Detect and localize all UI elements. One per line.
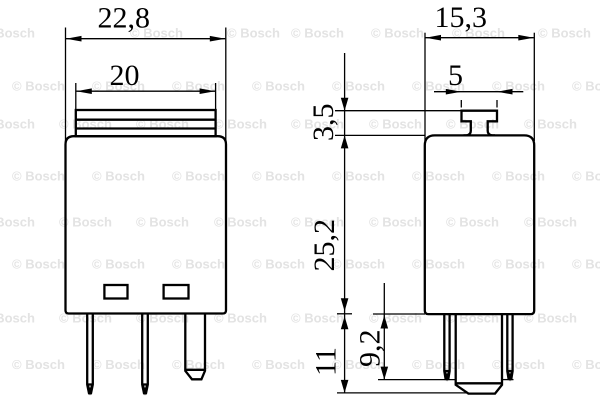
svg-text:© Bosch: © Bosch [214,117,267,132]
dim 9,2 dimension line [383,283,385,380]
dim 9,2 down arrow [381,367,389,380]
svg-text:© Bosch: © Bosch [12,357,65,372]
cap rib line 1 [76,119,216,121]
side pin right tip V [508,371,513,378]
dim 20 extension line right [215,83,217,110]
dim 15,3 dimension line [426,37,534,39]
svg-text:© Bosch: © Bosch [446,117,499,132]
ext line pin tips left segment [378,379,456,381]
tick extension at y=313.8 [337,313,352,315]
svg-text:© Bosch: © Bosch [0,26,35,41]
dim 22,8 arrow left [66,36,82,42]
dim 5 extension line right [496,100,498,108]
svg-text:© Bosch: © Bosch [59,215,112,230]
dim 22,8 extension line right [225,28,227,142]
svg-text:© Bosch: © Bosch [572,357,600,372]
pin 2 outline [142,314,148,394]
pin 1 tip V [88,385,93,392]
dim 15,3 extension line right [533,33,535,141]
svg-text:© Bosch: © Bosch [332,169,385,184]
svg-text:© Bosch: © Bosch [12,169,65,184]
dim 22,8 arrow right [210,36,226,42]
svg-text:© Bosch: © Bosch [291,311,344,326]
side pin left tip V [445,371,450,378]
pin 3 wide blade outline [185,314,205,380]
dim 3,5 arrow upper outside [341,98,349,111]
vertical dimension line for 3,5 / 25,2 / 11 [344,53,346,393]
svg-text:© Bosch: © Bosch [492,169,545,184]
svg-text:11: 11 [310,347,343,376]
dim 3,5 / 25,2 shared up arrow [341,135,349,148]
pin 2 crimp line [142,383,148,385]
svg-text:15,3: 15,3 [435,1,488,34]
terminal window right [164,285,189,299]
dim 5 arrow left outside [446,89,462,95]
side pin right crimp [507,370,512,372]
dim 11 bottom extension line [337,392,469,394]
svg-text:22,8: 22,8 [98,2,151,35]
svg-text:© Bosch: © Bosch [0,215,35,230]
svg-text:© Bosch: © Bosch [0,311,35,326]
center blade outline [456,314,502,394]
svg-text:© Bosch: © Bosch [369,215,422,230]
dim 5 extension line left [460,100,462,108]
svg-text:© Bosch: © Bosch [492,357,545,372]
dim 20 dimension line [76,90,215,92]
dim 25,2 down arrow [341,298,349,311]
side pin left crimp [444,370,449,372]
pin 2 tip V [143,385,148,392]
dim 22,8 dimension line [66,38,225,40]
ext line tab top going left [335,110,462,112]
ext line body top going left [335,134,425,136]
cap rib line 2 [76,127,216,129]
svg-text:© Bosch: © Bosch [252,257,305,272]
dim 20 arrow left [76,88,92,94]
dim 20 extension line left [75,83,77,110]
svg-text:5: 5 [448,59,463,92]
dim 9,2 up arrow [381,316,389,329]
svg-text:© Bosch: © Bosch [524,117,577,132]
svg-text:© Bosch: © Bosch [446,311,499,326]
svg-text:© Bosch: © Bosch [369,311,422,326]
svg-text:© Bosch: © Bosch [492,257,545,272]
svg-text:© Bosch: © Bosch [136,215,189,230]
dim 11 up arrow [341,316,349,329]
dim 5 arrow right outside [497,89,513,95]
svg-text:© Bosch: © Bosch [412,257,465,272]
svg-text:© Bosch: © Bosch [227,26,280,41]
svg-text:© Bosch: © Bosch [538,26,591,41]
svg-text:© Bosch: © Bosch [412,169,465,184]
svg-text:© Bosch: © Bosch [252,79,305,94]
relay cover cap [76,110,216,136]
dim 20 arrow right [200,88,216,94]
side pin right outline [507,314,512,379]
svg-text:© Bosch: © Bosch [92,169,145,184]
dim 5 dimension line [434,91,523,93]
svg-text:© Bosch: © Bosch [92,257,145,272]
svg-text:25,2: 25,2 [308,219,341,272]
svg-text:© Bosch: © Bosch [252,357,305,372]
svg-text:© Bosch: © Bosch [172,169,225,184]
svg-text:© Bosch: © Bosch [572,257,600,272]
ext line pin tips right segment [502,379,514,381]
svg-text:© Bosch: © Bosch [369,117,422,132]
center blade crimp line [456,382,502,384]
svg-text:© Bosch: © Bosch [332,79,385,94]
svg-text:20: 20 [110,59,140,92]
svg-text:© Bosch: © Bosch [0,117,35,132]
svg-text:© Bosch: © Bosch [252,169,305,184]
terminal window left [104,285,127,299]
svg-text:© Bosch: © Bosch [412,357,465,372]
svg-text:© Bosch: © Bosch [291,26,344,41]
svg-text:© Bosch: © Bosch [92,357,145,372]
dim 15,3 arrow left [426,35,442,41]
dim 15,3 arrow right [518,35,534,41]
pin 3 crimp line [185,369,205,371]
relay body side [425,135,534,314]
side pin left outline [444,314,449,379]
svg-text:© Bosch: © Bosch [172,257,225,272]
svg-text:© Bosch: © Bosch [371,26,424,41]
svg-text:© Bosch: © Bosch [524,215,577,230]
pin 1 crimp line [87,383,93,385]
svg-text:© Bosch: © Bosch [572,169,600,184]
ext line at y=314 left of body [373,313,425,315]
pin 1 outline [87,314,93,394]
svg-text:© Bosch: © Bosch [12,79,65,94]
svg-text:9,2: 9,2 [354,330,387,368]
svg-text:© Bosch: © Bosch [446,215,499,230]
terminal tab on top [462,111,498,136]
svg-text:© Bosch: © Bosch [214,215,267,230]
dim 11 down arrow [341,380,349,393]
dim 15,3 extension line left [424,33,426,141]
dim 22,8 extension line left [65,28,67,142]
svg-text:3,5: 3,5 [307,104,340,142]
relay body front [66,136,227,313]
svg-text:© Bosch: © Bosch [572,79,600,94]
svg-text:© Bosch: © Bosch [12,257,65,272]
